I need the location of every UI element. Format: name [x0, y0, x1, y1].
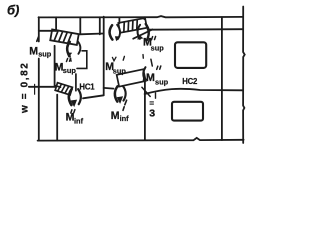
upper-left step vertical: [55, 17, 57, 31]
arrowhead P4: [70, 100, 77, 108]
wire vertical x=144.8 lower center: [144, 81, 146, 139]
double prime above Msup L3: [67, 58, 71, 61]
wire vertical x=103.6 center post: [103, 17, 105, 96]
frame top line: [39, 16, 244, 17]
dimension lead horizontal left: [29, 86, 56, 88]
comma mark M inf right: [123, 107, 124, 111]
arrowhead P5: [117, 96, 124, 104]
rotation arc P5 left: [115, 86, 118, 101]
frame bottom line: [38, 138, 244, 141]
svg-text:M: M: [146, 72, 155, 84]
svg-text:w = 0,82: w = 0,82: [20, 62, 31, 114]
frame left line: [38, 17, 40, 140]
tick above M sup mid: [112, 57, 116, 61]
rotation arc P3 left: [138, 25, 141, 39]
wire lever HC1 horizontal: [83, 95, 104, 98]
svg-text:inf: inf: [120, 114, 130, 123]
svg-text:sup: sup: [151, 44, 165, 53]
rotation arc P1 left: [67, 42, 70, 56]
frame right line: [243, 7, 245, 144]
wire vertical x=99.7: [99, 17, 101, 34]
rotation arc P4 left: [69, 89, 72, 105]
prime mark M inf right: [125, 100, 127, 105]
arrowhead P2: [115, 36, 121, 41]
rotation arc P4 right: [78, 89, 81, 104]
wire vertical x=57 lower: [56, 95, 58, 141]
svg-text:sup: sup: [155, 78, 169, 87]
tick below P1: [69, 58, 72, 61]
rectangle HC2 upper: [175, 42, 206, 68]
arrowhead P1: [67, 52, 73, 57]
upper-left step horizontal: [39, 30, 56, 32]
contact box HC1 small hatched: [55, 83, 72, 95]
bracket pointer Msup left: [77, 51, 87, 69]
contact box lower-center hollow: [117, 69, 146, 86]
horizontal mid right shelf: [145, 89, 243, 94]
tick small x143: [142, 55, 144, 59]
wire horizontal y=34: [80, 33, 104, 36]
lever P3 diagonal: [133, 30, 152, 39]
double prime above M''sup L4: [152, 36, 156, 39]
contact box upper-left hatched: [50, 29, 78, 45]
divider vertical x=222: [221, 17, 223, 140]
double prime above M''inf L7: [71, 110, 75, 113]
wire vertical x=75.9 to pivot: [75, 74, 77, 91]
svg-text:HC1: HC1: [79, 82, 95, 91]
double prime above M''sup L6: [157, 66, 161, 69]
arrowhead P3: [137, 34, 143, 40]
prime mark M'sup upper left: [37, 37, 39, 41]
tick above P6: [151, 59, 152, 66]
stub frame to box top-center: [118, 17, 120, 23]
wire vertical x=80: [79, 17, 81, 34]
rotation arc P2 right: [117, 25, 120, 39]
rotation arc P2 left: [110, 25, 113, 39]
arrowhead P6: [143, 77, 148, 82]
prime mark mid: [123, 56, 124, 60]
svg-text:sup: sup: [113, 67, 127, 76]
rotation arc P6: [143, 67, 145, 80]
svg-text:M: M: [29, 45, 38, 57]
svg-text:M: M: [111, 110, 120, 122]
wire short horizontal to pivot: [104, 87, 114, 90]
svg-text:sup: sup: [38, 50, 52, 59]
lever into HC1 box: [55, 86, 61, 88]
dimension tick l: [155, 93, 157, 98]
contact box top-center hatched: [118, 18, 147, 33]
svg-text:sup: sup: [63, 66, 77, 75]
rotation arc P5 right: [123, 86, 126, 101]
rotation arc P3 right: [146, 24, 149, 40]
label M'sup upper left: [20, 37, 199, 126]
horizontal upper right shelf: [148, 28, 243, 31]
svg-text:б): б): [7, 3, 19, 18]
wire vertical x=54.5: [54, 46, 56, 87]
rectangle HC2 lower: [172, 102, 203, 121]
stub box corner to frame: [143, 17, 145, 19]
rotation arc P1 right: [78, 41, 81, 54]
svg-text:HC2: HC2: [182, 77, 198, 86]
lever P6 diagonal lower: [142, 87, 150, 96]
svg-text:inf: inf: [74, 117, 84, 126]
svg-text:3: 3: [149, 108, 155, 120]
dimension tick left: [34, 84, 36, 94]
